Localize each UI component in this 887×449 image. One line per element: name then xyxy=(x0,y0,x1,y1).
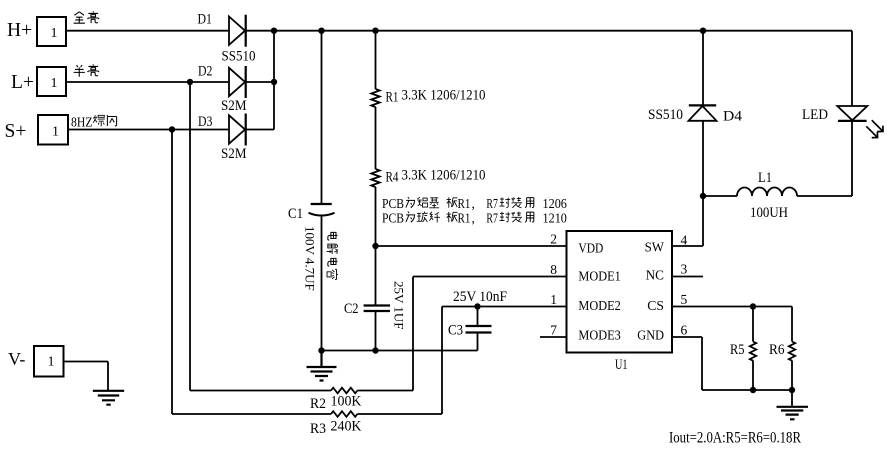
svg-text:S2M: S2M xyxy=(221,146,247,162)
svg-text:V-: V- xyxy=(8,349,25,369)
svg-text:R3: R3 xyxy=(310,421,326,437)
svg-text:1: 1 xyxy=(51,26,58,41)
svg-text:S+: S+ xyxy=(5,121,27,142)
svg-text:R6: R6 xyxy=(769,342,785,358)
svg-text:MODE1: MODE1 xyxy=(578,268,620,283)
svg-text:,: , xyxy=(472,196,475,211)
svg-text:D4: D4 xyxy=(723,109,743,125)
svg-text:LED: LED xyxy=(802,107,828,123)
svg-text:S2M: S2M xyxy=(221,98,247,114)
svg-text:1: 1 xyxy=(550,292,557,307)
svg-text:SS510: SS510 xyxy=(648,107,683,123)
svg-text:D3: D3 xyxy=(198,114,213,130)
svg-text:1: 1 xyxy=(51,76,58,91)
svg-text:3: 3 xyxy=(681,262,688,277)
svg-text:GND: GND xyxy=(637,328,664,343)
svg-text:MODE2: MODE2 xyxy=(578,298,620,313)
svg-text:6: 6 xyxy=(681,322,688,337)
svg-text:R1: R1 xyxy=(458,211,471,226)
svg-text:C2: C2 xyxy=(344,301,359,317)
svg-text:25V 1UF: 25V 1UF xyxy=(392,281,407,330)
svg-text:C3: C3 xyxy=(448,323,463,339)
svg-text:VDD: VDD xyxy=(578,241,603,256)
svg-text:100K: 100K xyxy=(331,394,363,410)
svg-text:D2: D2 xyxy=(198,64,213,80)
svg-text:L+: L+ xyxy=(11,72,34,93)
svg-text:Iout=2.0A:R5=R6=0.18R: Iout=2.0A:R5=R6=0.18R xyxy=(669,430,801,447)
svg-text:3.3K 1206/1210: 3.3K 1206/1210 xyxy=(402,88,486,104)
svg-text:240K: 240K xyxy=(331,419,363,435)
svg-text:8: 8 xyxy=(550,262,557,277)
svg-text:D1: D1 xyxy=(198,12,213,28)
svg-text:R2: R2 xyxy=(310,396,326,412)
svg-text:1: 1 xyxy=(48,355,55,370)
svg-text:R4: R4 xyxy=(386,170,399,186)
svg-text:25V 10nF: 25V 10nF xyxy=(453,289,507,305)
svg-text:MODE3: MODE3 xyxy=(578,328,621,343)
svg-text:1206: 1206 xyxy=(543,196,568,211)
svg-text:R7: R7 xyxy=(486,196,498,211)
svg-text:2: 2 xyxy=(550,232,557,247)
svg-text:PCB: PCB xyxy=(382,196,404,211)
svg-text:PCB: PCB xyxy=(382,211,404,226)
svg-text:4: 4 xyxy=(681,232,688,247)
svg-text:L1: L1 xyxy=(758,170,772,186)
svg-text:H+: H+ xyxy=(7,20,32,41)
svg-text:100V 4.7UF: 100V 4.7UF xyxy=(303,226,318,291)
svg-text:CS: CS xyxy=(647,298,664,313)
svg-text:R1: R1 xyxy=(458,196,471,211)
svg-text:SW: SW xyxy=(645,240,665,255)
svg-text:R5: R5 xyxy=(730,342,745,358)
svg-text:NC: NC xyxy=(646,268,664,283)
svg-text:U1: U1 xyxy=(615,357,628,373)
svg-text:R7: R7 xyxy=(486,211,498,226)
svg-text:C1: C1 xyxy=(288,206,303,222)
svg-text:8HZ: 8HZ xyxy=(71,116,93,131)
svg-text:,: , xyxy=(472,211,475,226)
svg-text:5: 5 xyxy=(681,292,688,307)
svg-text:100UH: 100UH xyxy=(750,205,788,221)
svg-text:3.3K 1206/1210: 3.3K 1206/1210 xyxy=(402,168,486,184)
svg-text:R1: R1 xyxy=(386,90,399,106)
svg-text:7: 7 xyxy=(550,323,557,338)
svg-text:1: 1 xyxy=(52,125,59,140)
svg-text:1210: 1210 xyxy=(543,211,568,226)
svg-text:SS510: SS510 xyxy=(222,49,256,65)
